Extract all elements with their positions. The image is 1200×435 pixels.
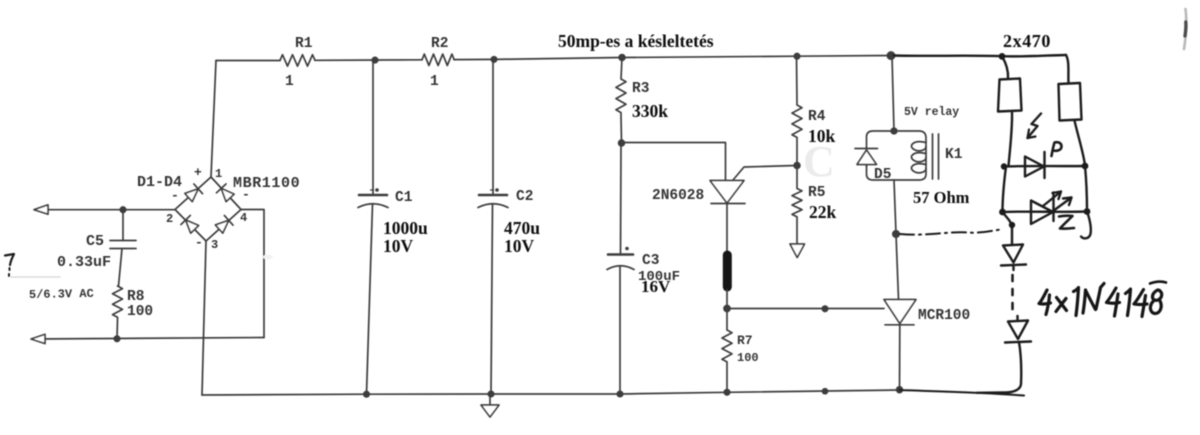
svg-text:-: - bbox=[171, 188, 179, 203]
svg-text:R8: R8 bbox=[127, 289, 144, 305]
LED Z symbol bbox=[1031, 193, 1054, 225]
node: AC top / C5 junction bbox=[120, 207, 125, 212]
svg-text:2: 2 bbox=[166, 212, 173, 226]
handwritten 4x1N4148 bbox=[1039, 282, 1166, 317]
handwritten label P bbox=[1052, 142, 1062, 156]
bridge diode D3 (node3 to node2) bbox=[181, 215, 199, 233]
node: R7 / bottom rail bbox=[724, 390, 729, 395]
node: C3 / bottom rail bbox=[617, 391, 622, 396]
wire: bridge node4 to AC bottom line bbox=[241, 210, 264, 338]
LED P lightning arrow bbox=[1028, 114, 1042, 139]
wire: AC input top line bbox=[36, 209, 175, 211]
svg-text:4: 4 bbox=[240, 211, 247, 225]
svg-text:470u: 470u bbox=[504, 218, 540, 238]
svg-text:D5: D5 bbox=[874, 167, 891, 183]
node: PUT gate / R4-R5 junction bbox=[794, 163, 800, 169]
faint smudge near 0.33uF bbox=[263, 255, 273, 260]
node: AC bottom / R8 junction bbox=[114, 336, 119, 341]
svg-text:16V: 16V bbox=[641, 277, 671, 296]
wire: relay bottom to junction bbox=[894, 180, 896, 234]
node: diode chain top bbox=[1009, 222, 1015, 228]
hand wire: bottom rail extension bbox=[900, 390, 1025, 396]
capacitor C1 bbox=[358, 60, 388, 394]
hand wire: LED Z row down to diode chain bbox=[1003, 212, 1012, 226]
node: relay top bbox=[891, 128, 897, 134]
svg-text:C1: C1 bbox=[395, 190, 413, 206]
relay K1 box and coil bbox=[867, 131, 927, 180]
wire: bottom rail bbox=[202, 390, 900, 395]
hand wire: top rail extension bbox=[894, 55, 1066, 56]
wire: top rail segment B bbox=[315, 59, 422, 62]
hand resistor 470 (left) bottom lead bbox=[1009, 112, 1013, 166]
wire: gate line to MCR100 bbox=[727, 308, 884, 310]
wire: junction to SCR anode bbox=[896, 234, 899, 299]
node: relay / SCR junction bbox=[893, 231, 899, 237]
node: rail / R4 bbox=[794, 54, 799, 59]
hand wire: LED Z row bbox=[1003, 210, 1088, 213]
svg-text:R2: R2 bbox=[431, 36, 448, 52]
hand wire: rail corner down to right resistor bbox=[1066, 55, 1069, 83]
wire: SCR cathode to bottom rail bbox=[899, 324, 901, 390]
node: rail / R3 bbox=[619, 55, 625, 61]
svg-text:-: - bbox=[195, 235, 203, 250]
hand wire: diode chain to bottom rail bbox=[977, 342, 1021, 393]
resistor R7 bbox=[722, 309, 732, 393]
hand resistor 470 (right) body bbox=[1059, 83, 1082, 121]
open arrow to ground below R5 bbox=[790, 244, 805, 258]
svg-text:K1: K1 bbox=[945, 147, 963, 163]
wire: bridge + output up to top rail bbox=[211, 61, 216, 178]
svg-text:-: - bbox=[242, 187, 250, 202]
diode bridge frame D1-D4 bbox=[175, 177, 241, 241]
handwritten annotation 7 at left edge bbox=[5, 254, 14, 265]
wire: top rail segment C bbox=[454, 56, 894, 60]
svg-text:100: 100 bbox=[737, 351, 759, 365]
diode chain: dash-dot continuation bbox=[1011, 275, 1014, 316]
wire: PUT cathode down bbox=[726, 204, 728, 253]
svg-text:R1: R1 bbox=[295, 36, 313, 52]
svg-text:R7: R7 bbox=[737, 333, 753, 348]
bridge diode D4 (node3 to node4) bbox=[215, 215, 233, 233]
relay core lines bbox=[933, 134, 939, 179]
svg-text:10V: 10V bbox=[504, 236, 535, 256]
svg-text:R3: R3 bbox=[632, 81, 649, 97]
svg-text:C5: C5 bbox=[86, 233, 104, 250]
diode D5 bbox=[855, 149, 878, 167]
relay coil loop 2 bbox=[911, 153, 926, 162]
svg-text:1: 1 bbox=[215, 167, 222, 181]
svg-text:2N6028: 2N6028 bbox=[652, 188, 704, 204]
hand dash-dot link: relay junction to diode chain bbox=[900, 230, 1001, 235]
resistor R1 bbox=[280, 55, 315, 66]
resistor R5 bbox=[792, 166, 802, 245]
capacitor C3 bbox=[607, 143, 634, 394]
svg-text:0.33uF: 0.33uF bbox=[57, 254, 111, 271]
AC input terminal arrow (top) bbox=[34, 205, 48, 214]
capacitor C2 bbox=[478, 59, 508, 394]
svg-text:57 Ohm: 57 Ohm bbox=[913, 188, 970, 207]
node: rail / relay branch bbox=[887, 52, 894, 59]
svg-text:10V: 10V bbox=[383, 236, 414, 256]
thick inked wire segment bbox=[723, 251, 732, 292]
svg-text:MCR100: MCR100 bbox=[918, 308, 970, 324]
resistor R2 bbox=[422, 54, 454, 65]
svg-text:3: 3 bbox=[211, 238, 218, 252]
svg-text:10k: 10k bbox=[808, 126, 836, 146]
wire: thick bar to R7 junction bbox=[726, 290, 728, 309]
top right edge smudge bbox=[1184, 9, 1186, 49]
handwritten label Z bbox=[1059, 216, 1074, 229]
node: rail / C1 bbox=[372, 57, 377, 62]
hand resistor 470 (left) body bbox=[998, 79, 1022, 112]
node: LED P row right bbox=[1082, 163, 1089, 170]
node: hand rail / left 470 resistor bbox=[999, 53, 1006, 60]
svg-text:5/6.3V AC: 5/6.3V AC bbox=[29, 287, 94, 302]
resistor R3 bbox=[616, 58, 626, 144]
wire: R3 junction to PUT anode bbox=[622, 143, 726, 181]
node: LED Z row right bbox=[1084, 208, 1091, 215]
SCR cathode bar bbox=[885, 324, 914, 326]
hand resistor 470 (left) lead bbox=[1002, 56, 1008, 78]
svg-text:R4: R4 bbox=[808, 109, 826, 125]
bridge diode D2 (node4 to node1) bbox=[216, 184, 234, 202]
svg-text:C3: C3 bbox=[642, 253, 659, 269]
svg-text:50mp-es a késleltetés: 50mp-es a késleltetés bbox=[558, 31, 714, 51]
svg-text:100: 100 bbox=[127, 304, 153, 320]
node: C1 / bottom rail bbox=[364, 392, 369, 397]
node: gate line dot bbox=[822, 306, 827, 311]
wire: rail to relay top bbox=[892, 56, 894, 131]
AC input terminal arrow (bottom) bbox=[31, 334, 45, 343]
svg-text:R5: R5 bbox=[808, 185, 825, 201]
node: rail / C2 bbox=[491, 57, 496, 62]
node: C2 / bottom rail bbox=[488, 391, 493, 396]
svg-text:330k: 330k bbox=[632, 101, 668, 121]
svg-text:22k: 22k bbox=[809, 202, 837, 222]
bridge diode D1 (node2 to node1) bbox=[184, 184, 202, 202]
hand wire: left vertical between LED rows bbox=[1003, 167, 1007, 213]
hand wire: LED P row bbox=[1004, 165, 1085, 168]
LED P symbol bbox=[1025, 152, 1045, 178]
node: LED P row left bbox=[1001, 163, 1007, 169]
node: bottom rail dot near x=825 bbox=[823, 389, 828, 394]
diode chain: series diode A bbox=[1001, 225, 1026, 270]
node: R3 / C3 junction bbox=[619, 140, 625, 146]
wire: bridge - output down to bottom rail bbox=[202, 241, 206, 395]
relay coil loop 1 bbox=[911, 142, 926, 151]
resistor R4 bbox=[792, 56, 802, 165]
PUT 2N6028 bbox=[710, 181, 744, 204]
svg-text:1: 1 bbox=[430, 74, 439, 90]
ground symbol bbox=[481, 394, 499, 417]
diode chain: series diode B bbox=[1005, 316, 1031, 343]
hand wire: right vertical between LED rows bbox=[1085, 166, 1087, 212]
resistor R8 bbox=[113, 286, 123, 339]
SCR MCR100 bbox=[884, 300, 916, 324]
relay coil loop 3 bbox=[911, 164, 926, 173]
svg-text:5V relay: 5V relay bbox=[904, 106, 959, 119]
node: SCR / bottom rail bbox=[897, 387, 903, 393]
svg-text:1000u: 1000u bbox=[383, 218, 428, 238]
svg-text:2x470: 2x470 bbox=[1003, 31, 1051, 51]
faint line from annotation 7 bbox=[11, 276, 60, 278]
capacitor C5 bbox=[110, 210, 136, 286]
hand wire: right dangling hook bbox=[1081, 212, 1091, 239]
wire: AC input bottom line bbox=[33, 338, 264, 340]
svg-text:C2: C2 bbox=[516, 189, 533, 205]
node: R7 / gate line junction bbox=[724, 306, 730, 312]
LED Z emission arrows bbox=[1043, 192, 1072, 213]
wire: top rail segment A bbox=[216, 60, 280, 62]
svg-text:+: + bbox=[194, 165, 202, 180]
svg-text:1: 1 bbox=[285, 74, 294, 90]
node: LED Z row left bbox=[999, 209, 1006, 216]
hand resistor 470 (right) bottom lead bbox=[1075, 121, 1086, 166]
